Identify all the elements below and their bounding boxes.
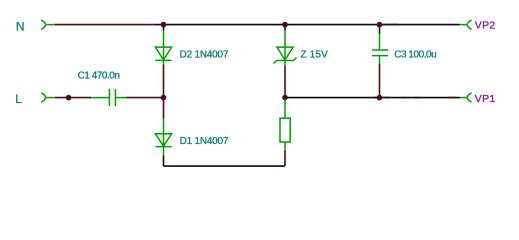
wire R bottom to bottom rail (maroon) xyxy=(284,150,286,166)
wire mid rail maroon patch 3 xyxy=(414,97,420,99)
capacitor C1 xyxy=(91,89,126,106)
junction dot node VP1 mid xyxy=(282,95,288,101)
wire N port to D2 top (maroon) xyxy=(55,24,155,26)
wire mid rail maroon patch 2 xyxy=(402,97,407,99)
svg-text:L: L xyxy=(15,92,22,106)
wire D1 bottom stub (dark) xyxy=(163,155,165,166)
svg-text:D1 1N4007: D1 1N4007 xyxy=(180,136,229,147)
wire Z top stub (dark) xyxy=(284,25,286,31)
port N xyxy=(41,20,55,29)
junction dot top Z column xyxy=(282,22,288,28)
junction dot top C3 column xyxy=(377,22,383,28)
svg-text:Z 15V: Z 15V xyxy=(301,50,329,61)
junction dot top D column xyxy=(161,22,167,28)
svg-text:VP2: VP2 xyxy=(475,20,496,32)
wire mid rail maroon patch at C3 junction xyxy=(373,97,390,99)
port VP2 xyxy=(460,20,472,29)
svg-text:C3 100.0u: C3 100.0u xyxy=(394,50,436,61)
diode D2 xyxy=(155,31,171,65)
diode D1 xyxy=(155,119,171,156)
port VP1 xyxy=(460,93,472,102)
wire D2 top stub (dark) xyxy=(163,25,165,31)
wire bottom rail xyxy=(164,165,286,167)
wire L port to C1 (maroon) xyxy=(55,97,92,99)
wire top rail maroon patch near C3 xyxy=(381,24,398,26)
junction dot node A xyxy=(161,95,167,101)
zener diode Z xyxy=(274,31,297,66)
wire Z bottom to node VP1 (maroon) xyxy=(284,66,286,98)
wire mid rail Z to VP1 (dark) xyxy=(285,97,460,99)
svg-text:VP1: VP1 xyxy=(475,93,496,105)
resistor R1 xyxy=(280,99,290,150)
wire D2 bottom to node A to D1 (maroon) xyxy=(163,65,165,119)
svg-text:C1 470.0n: C1 470.0n xyxy=(78,70,120,81)
svg-text:N: N xyxy=(16,20,25,34)
wire C3 bottom to mid rail (maroon) xyxy=(379,64,381,98)
wire top rail D2 to VP2 (dark) xyxy=(155,24,460,26)
junction dot C3 mid xyxy=(377,95,383,101)
port L xyxy=(41,93,55,102)
wire C3 top stub (maroon) xyxy=(379,25,381,35)
wire mid rail maroon patch 4 xyxy=(449,97,456,99)
junction dot L line xyxy=(66,95,72,101)
svg-text:D2 1N4007: D2 1N4007 xyxy=(180,50,229,61)
capacitor C3 xyxy=(372,34,388,64)
wire C1 to node A (maroon) xyxy=(126,97,163,99)
